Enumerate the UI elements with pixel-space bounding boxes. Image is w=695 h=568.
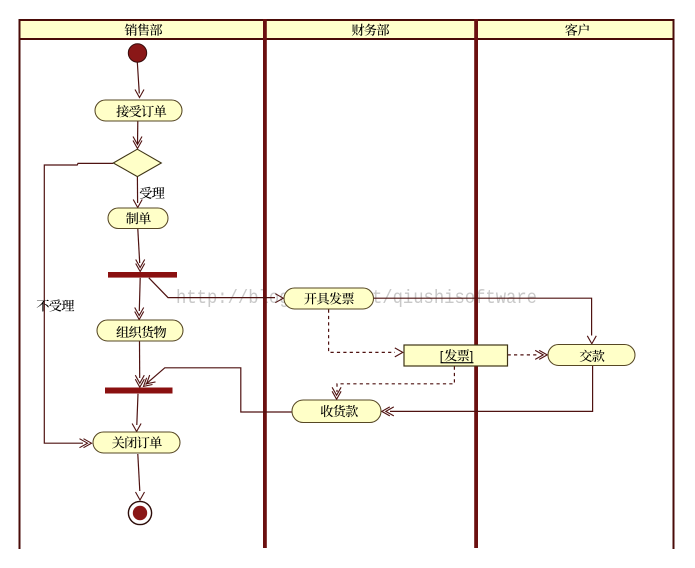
svg-text:[: [ xyxy=(440,349,444,363)
svg-text:]: ] xyxy=(470,349,473,363)
